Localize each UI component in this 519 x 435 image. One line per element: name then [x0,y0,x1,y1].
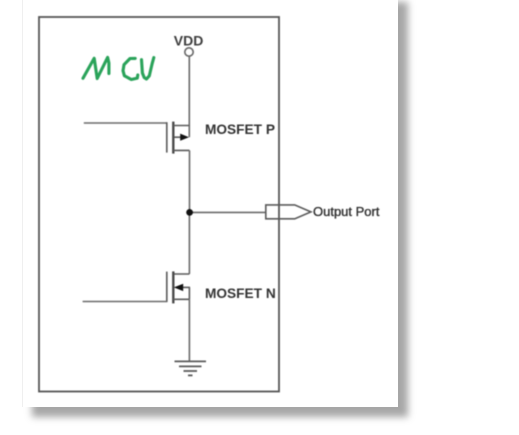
wire: NMOS gate stub [83,301,167,303]
transistor MOSFET P gate bar [166,122,168,152]
transistor MOSFET N drain stub (top) [173,273,189,275]
VDD supply circle [185,48,193,56]
transistor MOSFET N source stub (bottom) [173,298,189,300]
transistor MOSFET N channel bar [172,271,174,303]
ground bar 4 [188,374,193,376]
svg-text:Output Port: Output Port [313,204,380,219]
transistor MOSFET P channel bar [172,122,174,154]
wire: output node down to NMOS drain [188,212,190,274]
ground bar 2 [179,365,202,367]
ground bar 3 [184,370,198,372]
document page with drop shadow [22,0,398,407]
wire: VDD circle down to PMOS source/bulk [188,56,190,137]
wire: NMOS source down to ground [188,299,190,361]
svg-text:MOSFET P: MOSFET P [205,122,275,137]
svg-text:MOSFET N: MOSFET N [205,286,276,301]
transistor MOSFET P drain stub (bottom) [173,149,189,151]
transistor MOSFET P bulk arrow head [180,134,189,141]
wire: PMOS gate stub [84,122,167,124]
output node junction dot [186,209,193,216]
transistor MOSFET P source stub (top) [173,125,189,127]
handwritten green MCU annotation: letter M [83,57,109,78]
transistor MOSFET N bulk stub line [183,286,190,288]
handwritten green MCU annotation: letter C [123,58,138,79]
wire: output node to port [190,211,267,213]
transistor MOSFET N gate bar [166,272,168,303]
MCU box outline [39,17,279,392]
wire: NMOS bulk to source tie [188,287,190,299]
transistor MOSFET N bulk arrow head [174,284,183,291]
wire: PMOS drain down to output node [189,150,191,212]
transistor MOSFET P bulk stub line [174,136,182,138]
svg-text:VDD: VDD [174,33,204,49]
ground bar 1 [175,360,207,362]
output port symbol [266,205,311,219]
handwritten green MCU annotation: letter U [142,58,154,79]
